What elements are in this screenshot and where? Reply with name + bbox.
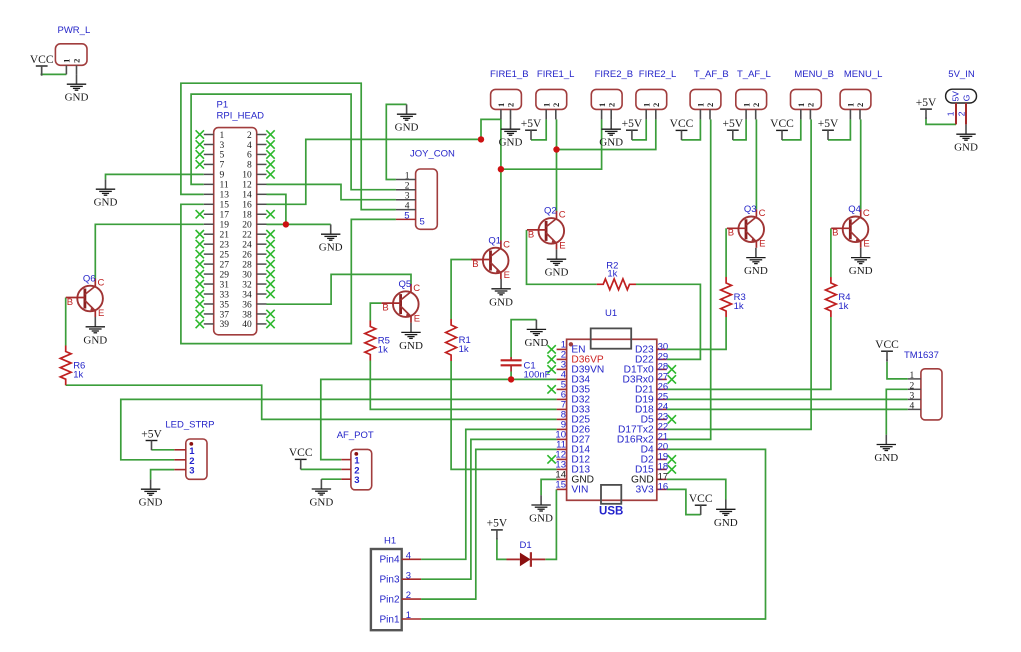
connector LED_STRP [165,420,214,480]
LED_STRP pin 1 [174,446,195,457]
svg-text:+5V: +5V [622,118,643,130]
U1 pin 19 D2 [641,452,676,466]
svg-text:1: 1 [946,111,956,116]
svg-text:VCC: VCC [875,339,899,351]
svg-text:4: 4 [406,550,411,561]
wire VCC to AF_POT pin2 [301,468,342,470]
wire U1 D18 to TM1637 pin4 [667,408,908,410]
connector TM1637 [904,350,942,420]
U1 pin 18 D15 [635,462,676,476]
svg-text:+5V: +5V [487,518,508,530]
svg-text:37: 37 [220,310,230,320]
svg-text:GND: GND [489,296,513,308]
svg-text:8: 8 [247,161,252,171]
svg-text:5V: 5V [950,91,960,102]
wire RPI pin12 to JOY_CON pin3 [267,184,396,199]
transistor Q6 [66,273,105,319]
svg-text:33: 33 [220,290,230,300]
svg-text:LED_STRP: LED_STRP [165,420,214,431]
RPI pin 9 [204,171,225,181]
svg-text:100nF: 100nF [524,370,551,381]
RPI pin 20 [242,221,266,231]
transistor Q1 [471,235,510,281]
svg-text:+5V: +5V [916,97,937,109]
svg-text:6: 6 [247,151,252,161]
connector FIRE1_L [536,69,575,119]
wire U1 D14 to H1 Pin2 [421,449,556,599]
svg-text:1: 1 [846,103,856,107]
U1 pin 6 D32 [557,389,591,405]
svg-text:1: 1 [641,103,651,107]
RPI pin 26 [242,250,274,261]
svg-text:2: 2 [72,59,82,63]
AF_POT pin 1 [341,456,360,467]
U1 pin 15 VIN [555,479,588,495]
TM1637 pin 1 [908,371,921,381]
svg-text:GND: GND [545,267,569,279]
svg-text:H1: H1 [384,536,396,547]
U1 pin 22 D17Tx2 [618,422,668,436]
svg-text:MENU_B: MENU_B [794,69,834,80]
svg-text:B: B [67,297,73,308]
RPI pin 13 [204,191,229,201]
wire C1 to GND [511,320,536,357]
RPI pin 1 [196,130,225,141]
svg-text:1: 1 [62,59,72,63]
TM1637 pin 2 [908,381,921,391]
wire U1 D4 to H1 Pin1 [421,449,765,619]
svg-text:19: 19 [220,221,230,231]
svg-text:1k: 1k [838,301,848,312]
wire MENU_B pin2 to U1 D17Tx2 [667,119,811,429]
U1 pin 4 D34 [557,369,591,385]
svg-text:2: 2 [405,182,410,192]
svg-text:P1: P1 [217,100,229,111]
power symbol VCC [875,339,899,361]
ground [599,119,623,148]
svg-text:+5V: +5V [141,428,162,440]
svg-text:C: C [98,277,105,288]
svg-text:GND: GND [599,137,623,149]
svg-text:GND: GND [714,517,738,529]
junction FIRE1_L/FIRE2_L net [553,146,559,152]
svg-text:GND: GND [499,137,523,149]
svg-text:B: B [382,303,388,314]
RPI pin 18 [242,210,274,221]
RPI pin 21 [196,230,230,241]
wire AF_POT pin3 to GND [321,478,341,480]
svg-text:PWR_L: PWR_L [58,25,91,36]
RPI pin 40 [242,320,274,331]
RPI pin 19 [204,221,229,231]
H1 pin 3 [379,570,421,585]
svg-text:Q5: Q5 [399,279,412,290]
wire VCC to PWR_L pin1 [41,73,67,75]
svg-text:GND: GND [309,497,333,509]
wire VCC to T_AF_B pin1 [682,119,701,139]
U1 pin 5 D35 [547,379,590,395]
power symbol VCC [689,493,713,515]
svg-text:Q2: Q2 [544,206,557,217]
svg-text:3V3: 3V3 [636,485,654,496]
U1 pin 7 D33 [557,399,591,415]
RPI pin 39 [196,320,230,331]
svg-text:GND: GND [139,497,163,509]
svg-text:C: C [503,239,510,250]
svg-text:C: C [863,208,870,219]
svg-text:2: 2 [909,381,914,391]
U1 pin 8 D25 [557,409,591,425]
svg-text:AF_POT: AF_POT [337,430,374,441]
wire R3 to U1 D23 [667,317,726,349]
wire R1 to U1 D13 [451,361,556,469]
power symbol +5V [487,518,508,540]
ground [139,479,163,508]
svg-text:34: 34 [242,290,252,300]
RPI pin 38 [242,310,274,321]
svg-text:1: 1 [909,371,914,381]
connector MENU_B [791,69,834,119]
svg-text:2: 2 [806,103,816,107]
svg-text:31: 31 [220,280,230,290]
svg-text:2: 2 [957,111,967,116]
svg-text:Q4: Q4 [848,204,861,215]
svg-text:38: 38 [242,310,252,320]
wire U1 D34 to AF_POT pin1 [321,379,557,459]
wire +5V to LED_STRP pin1 [152,449,175,451]
svg-text:E: E [98,308,104,319]
svg-text:2: 2 [651,103,661,107]
power symbol +5V [622,118,643,140]
svg-text:18: 18 [242,211,252,221]
RPI pin 16 [242,201,266,211]
RPI pin 2 [247,130,275,141]
LED_STRP pin 3 [174,466,194,477]
svg-text:22: 22 [242,231,252,241]
wire stub [300,468,302,470]
svg-text:VCC: VCC [689,493,713,505]
svg-text:B: B [472,259,478,270]
svg-text:RPI_HEAD: RPI_HEAD [217,111,265,122]
svg-text:GND: GND [874,452,898,464]
svg-text:1: 1 [541,103,551,107]
svg-text:Pin1: Pin1 [379,614,399,625]
svg-text:32: 32 [242,280,252,290]
wire stub [496,538,498,540]
wire TM1637 pin2 to GND [886,389,908,434]
wire +5V to FIRE1_L pin1 [531,119,546,139]
svg-text:E: E [504,270,510,281]
svg-text:GND: GND [529,513,553,525]
svg-text:+5V: +5V [723,118,744,130]
U1 pin 28 D1Tx0 [624,362,676,376]
wire stub [151,449,153,450]
svg-text:3: 3 [189,466,194,477]
U1 pin 26 D21 [635,382,668,396]
connector MENU_L [840,69,882,119]
JOY_CON pin 5 [396,210,425,227]
svg-text:E: E [559,240,565,251]
H1 pin 2 [379,590,421,605]
svg-text:2: 2 [506,103,516,107]
RPI pin 33 [196,290,230,301]
svg-text:+5V: +5V [818,118,839,130]
transistor Q4 [831,204,870,250]
svg-text:C: C [559,210,566,221]
svg-text:2: 2 [406,590,411,601]
wire +5V to FIRE2_L pin1 [632,119,646,139]
wire T_AF_B pin2 to U1 D16Rx2 [667,119,711,439]
RPI pin 15 [204,201,229,211]
svg-text:GND: GND [744,265,768,277]
JOY_CON pin 2 [396,182,416,192]
svg-text:36: 36 [242,300,252,310]
svg-text:+5V: +5V [521,118,542,130]
svg-text:GND: GND [83,334,107,346]
svg-text:4: 4 [909,401,914,411]
connector P1 RPI_HEAD [214,100,264,335]
JOY_CON pin 4 [396,202,416,212]
wire U1 D19 to TM1637 pin3 [667,398,908,400]
svg-text:1k: 1k [734,301,744,312]
svg-text:28: 28 [242,260,252,270]
power symbol +5V [723,118,744,140]
svg-text:C: C [413,283,420,294]
H1 pin 1 [379,610,421,625]
svg-text:12: 12 [242,181,252,191]
svg-text:GND: GND [399,340,423,352]
svg-text:Q3: Q3 [744,204,757,215]
RPI pin 6 [247,150,275,161]
wire Q3 base to R3 [725,228,727,277]
svg-text:U1: U1 [605,308,617,319]
wire FIRE1_B pin1 jog [481,119,501,139]
RPI pin 8 [247,160,275,171]
svg-text:FIRE1_L: FIRE1_L [537,69,575,80]
svg-text:1k: 1k [607,269,617,280]
svg-text:MENU_L: MENU_L [844,69,883,80]
RPI pin 34 [242,290,274,301]
svg-text:30: 30 [242,270,252,280]
svg-text:3: 3 [406,570,411,581]
svg-text:13: 13 [220,191,230,201]
svg-text:JOY_CON: JOY_CON [410,149,455,160]
RPI pin 5 [196,150,225,161]
svg-text:G: G [962,95,972,102]
wire RPI pin16 to FIRE1_B net [267,139,482,204]
svg-text:FIRE1_B: FIRE1_B [490,69,529,80]
svg-text:Pin4: Pin4 [379,555,399,566]
svg-text:E: E [759,239,765,250]
power symbol VCC [289,447,313,469]
RPI pin 31 [196,280,230,291]
svg-text:FIRE2_B: FIRE2_B [595,69,634,80]
ground [65,74,89,103]
wire U1 pin14 to GND [541,479,557,495]
power symbol +5V [916,97,937,119]
svg-text:3: 3 [909,391,914,401]
svg-text:Pin2: Pin2 [379,594,399,605]
resistor R4 [826,277,851,317]
ground [714,500,738,529]
svg-text:2: 2 [551,103,561,107]
svg-text:39: 39 [220,320,230,330]
U1 antenna box [591,328,632,348]
svg-text:16: 16 [242,201,252,211]
wire RPI pin19 to Q6 collector [95,224,204,278]
wire Q6 base to R6 [65,298,67,346]
svg-text:1k: 1k [73,369,83,380]
svg-text:VIN: VIN [571,485,588,496]
wire R4 to U1 D21 [667,317,831,389]
svg-text:E: E [414,314,420,325]
TM1637 pin 4 [908,401,921,411]
power symbol VCC [30,54,54,76]
wire U1 D32 to LED_STRP pin2 [121,399,557,459]
connector FIRE1_B [490,69,529,119]
diode D1 [507,540,546,567]
JOY_CON pin 3 [396,192,416,202]
U1 pin 27 D3Rx0 [623,372,676,386]
U1 pin 1 EN [547,339,585,355]
RPI pin 32 [242,280,274,291]
power symbol +5V [521,118,542,140]
svg-text:E: E [863,239,869,250]
RPI pin 22 [242,230,274,241]
connector T_AF_B [690,69,729,119]
U1 pin 13 D13 [555,459,590,475]
svg-text:2: 2 [606,103,616,107]
ground [874,435,898,464]
resistor R5 [365,321,390,361]
wire stub [886,359,888,361]
TM1637 pin 3 [908,391,921,401]
wire RPI pin15 to JOY_CON pin5 [181,204,396,343]
resistor R2 [597,260,636,289]
svg-text:25: 25 [220,250,230,260]
RPI pin 17 [196,210,230,221]
svg-text:21: 21 [220,231,230,241]
svg-text:5: 5 [404,210,409,221]
wire C1 to node [510,372,512,380]
svg-text:2: 2 [247,131,252,141]
RPI pin 29 [196,270,230,281]
transistor Q2 [527,206,566,252]
svg-text:29: 29 [220,270,230,280]
ground [83,317,107,346]
connector FIRE2_L [636,69,676,119]
wire +5V to 5V_IN pin1 [926,119,956,124]
ground [524,320,548,349]
svg-text:1k: 1k [378,345,388,356]
ground [94,179,118,208]
H1 pin 4 [379,550,421,565]
svg-text:15: 15 [555,479,566,490]
JOY_CON pin 1 [396,172,416,182]
connector PWR_L [55,25,90,74]
wire VCC to TM1637 pin1 [887,362,908,379]
wire LED_STRP pin3 to GND [151,470,175,480]
svg-text:GND: GND [94,197,118,209]
wire U1 pin17 to GND [667,479,726,499]
svg-text:GND: GND [65,92,89,104]
svg-text:GND: GND [954,142,978,154]
svg-text:14: 14 [242,191,252,201]
wire Q2 base to R2 [527,230,597,284]
RPI pin 12 [242,181,266,191]
connector T_AF_L [736,69,771,119]
svg-text:VCC: VCC [289,447,313,459]
ground [529,495,553,524]
svg-text:10: 10 [242,171,252,181]
svg-text:1: 1 [496,103,506,107]
U1 pin 16 3V3 [636,482,669,496]
U1 USB box [599,485,623,518]
wire Q5 base to R5 [370,303,381,320]
svg-text:Q1: Q1 [488,235,501,246]
wire U1 D27 to H1 Pin3 [421,439,556,579]
svg-text:17: 17 [220,211,230,221]
svg-text:26: 26 [242,250,252,260]
svg-text:11: 11 [220,181,229,191]
wire Q4 base to R4 [830,228,832,277]
op-amp U1 module outline [567,308,657,500]
ground [545,249,569,278]
svg-text:16: 16 [658,482,669,493]
RPI pin 7 [196,160,225,171]
U1 pin 2 D36VP [547,349,603,365]
svg-text:5: 5 [420,217,425,228]
resistor R3 [721,277,746,317]
svg-text:27: 27 [220,260,230,270]
U1 pin 10 D27 [555,429,590,445]
U1 pin 17 GND [631,472,668,486]
svg-text:GND: GND [319,242,343,254]
connector JOY_CON [410,149,455,230]
svg-text:1: 1 [405,172,410,182]
resistor R1 [446,319,471,361]
svg-text:3: 3 [220,141,225,151]
wire +5V to MENU_L pin1 [828,119,850,139]
wire R6 to U1 D25 [66,385,557,419]
wire U1 VIN to D1 cathode [545,489,556,559]
transistor Q5 [382,279,421,325]
ground [395,104,419,133]
wire JOY_CON pin1 to GND [386,104,406,179]
svg-text:T_AF_L: T_AF_L [737,69,771,80]
U1 pin 12 D12 [547,449,590,465]
svg-text:1: 1 [741,103,751,107]
RPI pin 27 [196,260,230,271]
svg-text:Q6: Q6 [83,273,96,284]
wire stub [41,66,43,74]
connector H1 [371,536,402,631]
svg-text:1: 1 [597,103,607,107]
svg-text:C: C [759,208,766,219]
power symbol +5V [141,428,162,450]
RPI pin 24 [242,240,274,251]
junction FIRE1_B net [478,136,484,142]
RPI pin 36 [242,300,266,310]
RPI pin 23 [196,240,230,251]
wire junction to FIRE2_B pin1 [501,119,602,169]
svg-text:5V_IN: 5V_IN [948,69,975,80]
svg-text:GND: GND [524,337,548,349]
wire RPI pin36 to Q5 collector [267,274,412,304]
svg-text:5: 5 [220,151,225,161]
wire stub [700,513,702,514]
U1 pin 21 D16Rx2 [617,432,668,446]
